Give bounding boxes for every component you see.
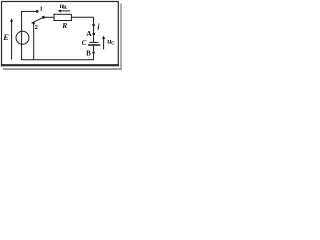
wire contact 2 down to bottom (33, 23, 35, 59)
svg-text:B: B (86, 50, 91, 58)
switch pole dot (42, 16, 45, 19)
wire left branch vertical (21, 11, 23, 59)
svg-text:A: A (86, 29, 92, 38)
svg-text:2: 2 (35, 24, 38, 31)
voltage arrow uR line (59, 10, 70, 12)
current arrow head i (92, 24, 95, 28)
resistor R box (54, 14, 71, 20)
emf arrow line for E (11, 21, 13, 60)
svg-text:C: C (111, 41, 115, 47)
switch contact 1 dot (36, 10, 39, 13)
voltage source circle (16, 31, 29, 44)
switch contact 2 dot (33, 22, 35, 24)
wire resistor to right corner and down (71, 17, 93, 42)
capacitor C bottom plate (88, 44, 100, 46)
svg-text:E: E (2, 32, 9, 42)
svg-text:R: R (61, 21, 67, 30)
svg-text:C: C (82, 39, 87, 47)
voltage arrow head uR (58, 9, 62, 12)
wire capacitor to bottom (93, 46, 95, 60)
emf arrow head E (10, 18, 13, 22)
switch arm K (32, 17, 44, 23)
node B dot (92, 51, 94, 53)
voltage arrow head uC (102, 36, 105, 40)
voltage arrow uC line (103, 38, 105, 49)
capacitor C top plate (89, 41, 98, 43)
wire top segment to contact 1 (21, 10, 36, 12)
node A dot (93, 33, 96, 36)
svg-text:1: 1 (40, 6, 43, 13)
wire pole to resistor (45, 16, 54, 18)
wire bottom return (21, 59, 94, 61)
